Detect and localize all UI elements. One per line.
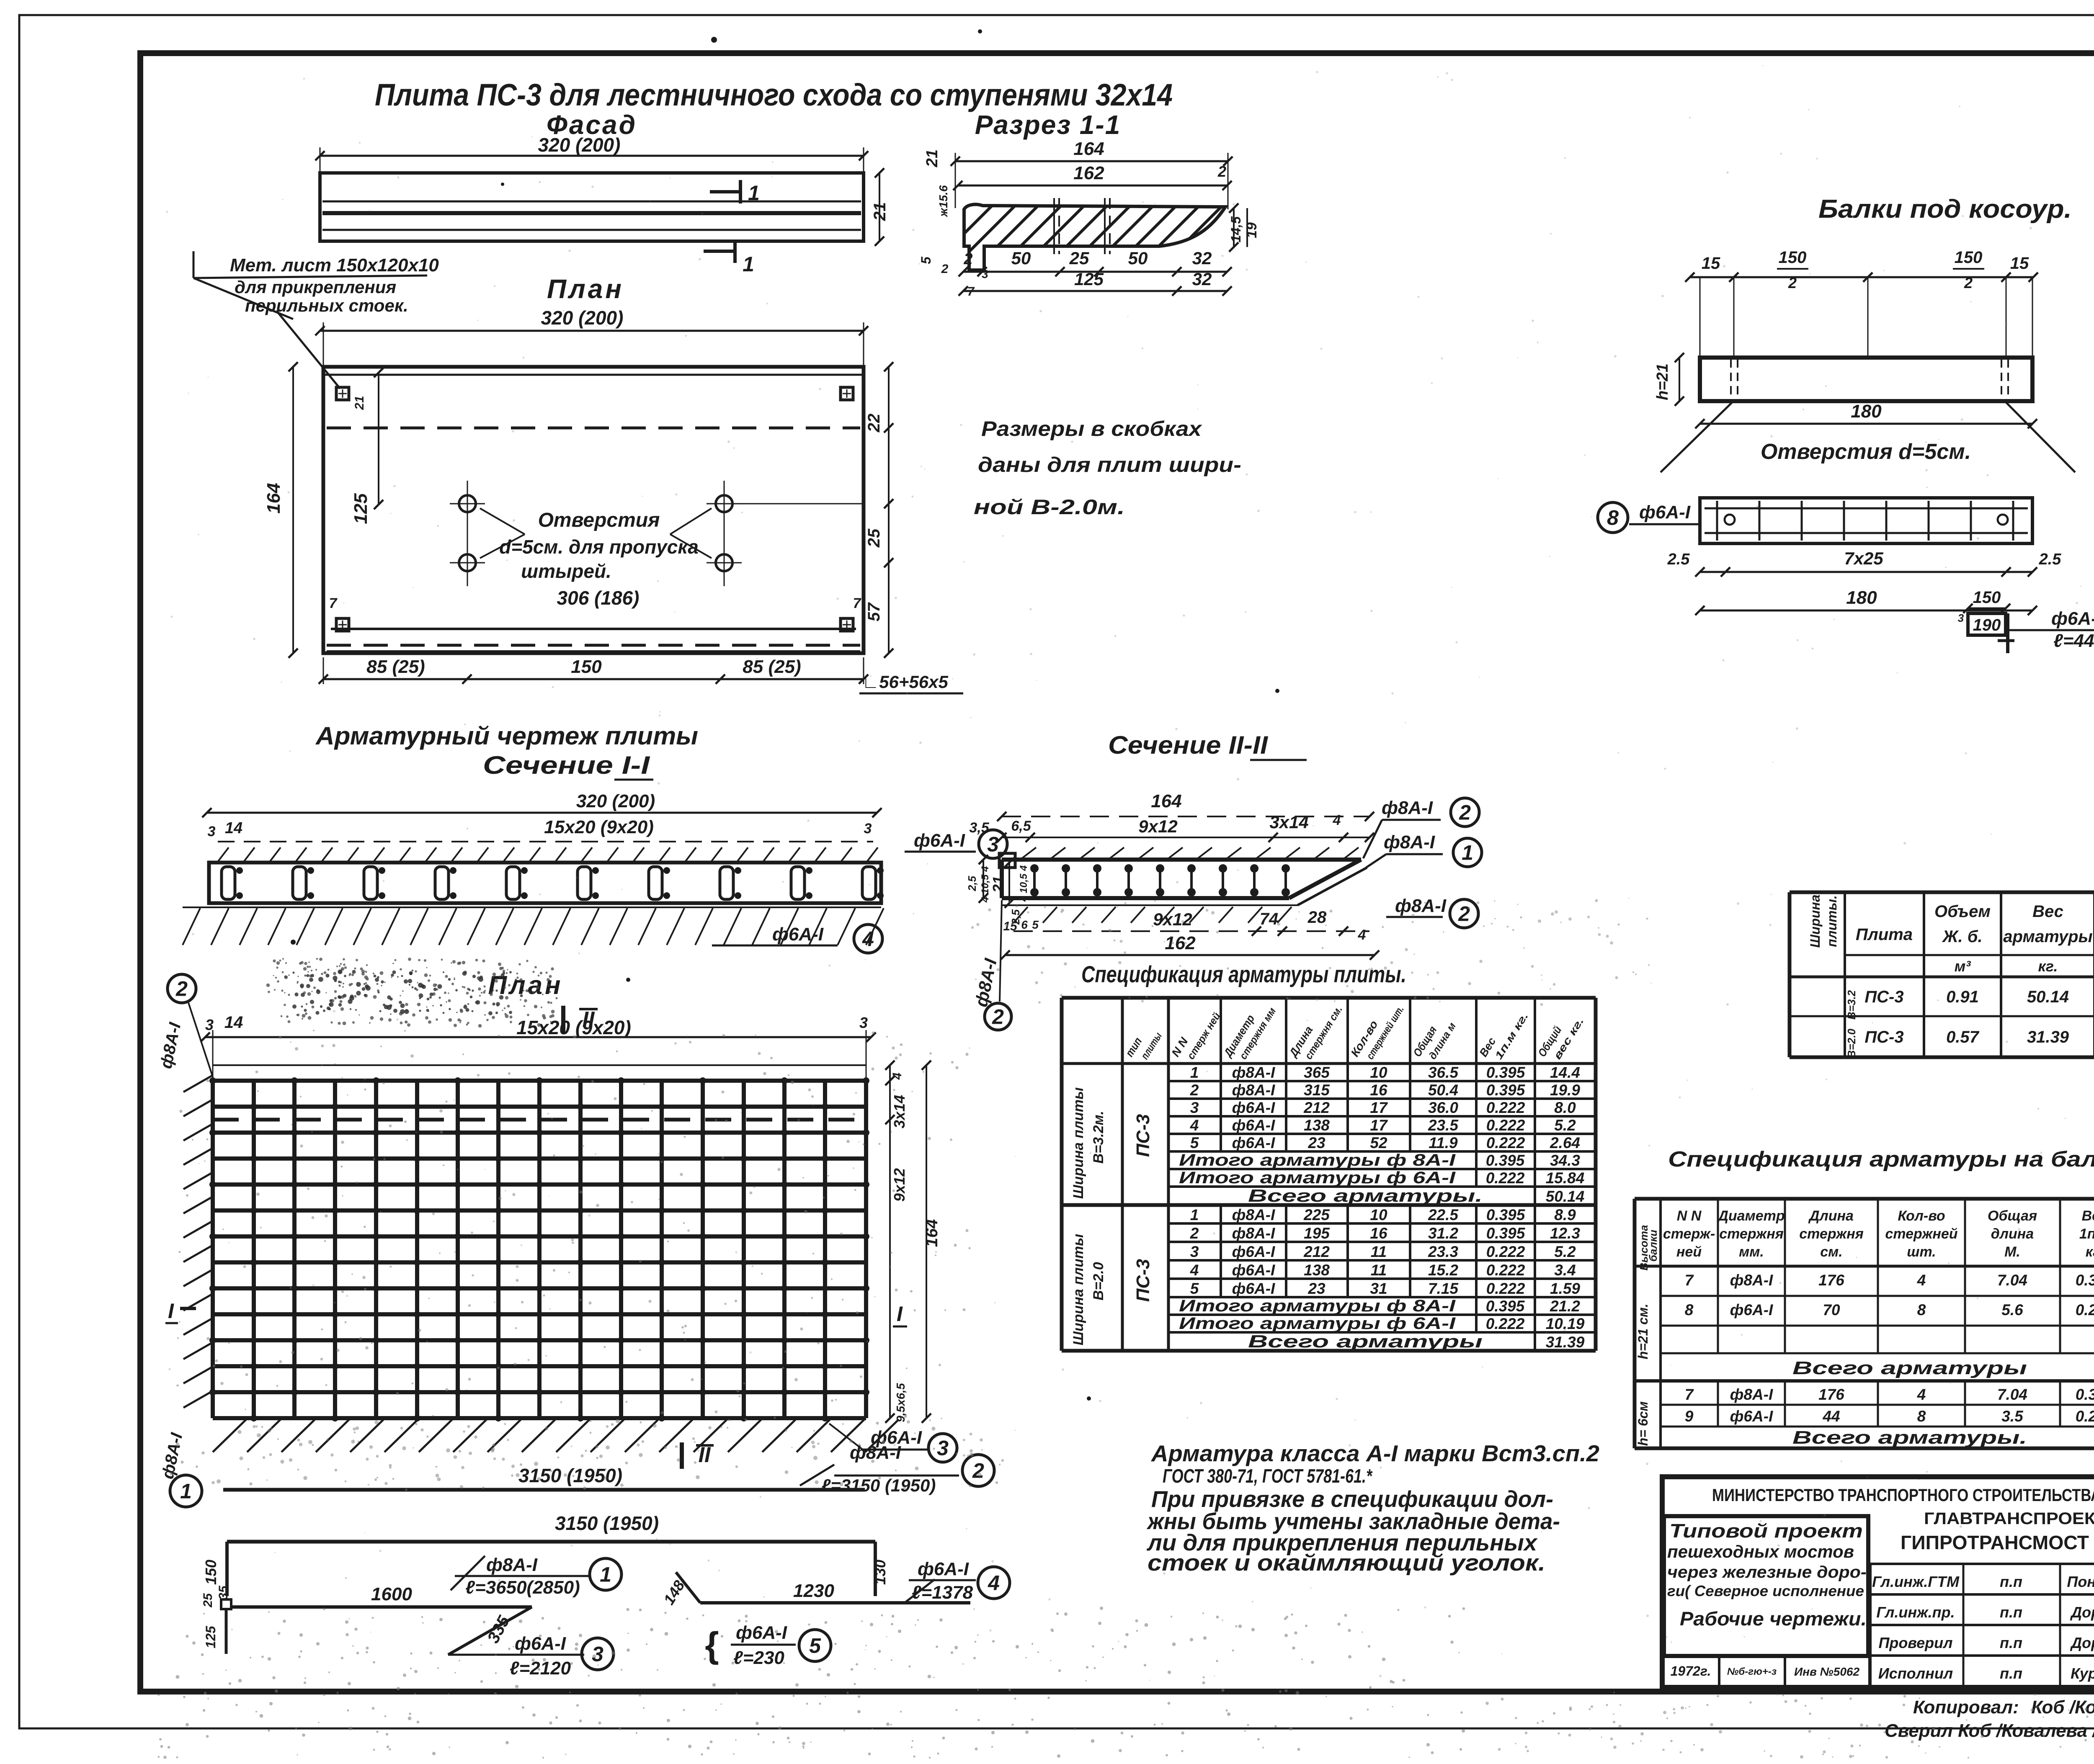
svg-text:10: 10 — [1370, 1206, 1387, 1223]
svg-text:225: 225 — [1303, 1206, 1330, 1223]
svg-text:п.п: п.п — [2000, 1604, 2022, 1621]
svg-text:ℓ=440: ℓ=440 — [2053, 631, 2094, 651]
holes leader lines — [480, 508, 525, 534]
svg-text:0.222: 0.222 — [1486, 1169, 1525, 1187]
grid bottom hatch — [213, 1419, 246, 1452]
svg-text:h= 6см: h= 6см — [1635, 1401, 1650, 1446]
svg-text:4: 4 — [890, 1072, 904, 1080]
svg-text:15х20 (9х20): 15х20 (9х20) — [544, 817, 654, 837]
svg-text:h=21 см.: h=21 см. — [1635, 1303, 1650, 1359]
svg-text:35: 35 — [217, 1585, 230, 1600]
razrez right labels — [1233, 208, 1235, 247]
bar mark 2 top-left — [168, 974, 196, 1003]
section I-I upper hatch — [218, 847, 229, 862]
svg-text:балки: балки — [1647, 1230, 1659, 1262]
svg-text:для прикрепления: для прикрепления — [235, 277, 396, 297]
svg-text:19.9: 19.9 — [1550, 1082, 1580, 1099]
svg-text:176: 176 — [1818, 1386, 1844, 1403]
svg-text:ф6А-I: ф6А-I — [1730, 1301, 1773, 1318]
beam reinforcement cage — [1700, 498, 2032, 543]
svg-text:130: 130 — [872, 1560, 889, 1585]
svg-text:кг.: кг. — [2086, 1244, 2094, 1260]
svg-text:Дорофеев: Дорофеев — [2070, 1604, 2094, 1621]
svg-text:3.4: 3.4 — [1554, 1262, 1576, 1279]
svg-text:ф8А-I: ф8А-I — [1232, 1064, 1275, 1081]
svg-text:7: 7 — [329, 595, 338, 611]
svg-text:2: 2 — [1217, 163, 1226, 180]
anchor plate top-left — [336, 387, 349, 400]
svg-text:2: 2 — [992, 1005, 1004, 1029]
svg-text:31: 31 — [1370, 1280, 1387, 1297]
svg-text:Мет. лист 150х120х10: Мет. лист 150х120х10 — [230, 255, 439, 276]
slab spec table frame — [1062, 996, 1596, 1000]
svg-text:п.п: п.п — [2000, 1665, 2022, 1682]
beam cage bottom dims — [1700, 571, 2032, 573]
svg-text:7: 7 — [853, 595, 862, 611]
svg-text:320 (200): 320 (200) — [541, 307, 624, 329]
svg-text:162: 162 — [1073, 163, 1104, 183]
svg-text:2.5: 2.5 — [2039, 551, 2062, 568]
plan left dim 164 — [292, 367, 294, 653]
svg-text:ф8А-I: ф8А-I — [1730, 1272, 1773, 1289]
svg-text:4: 4 — [1190, 1262, 1199, 1279]
svg-text:5.2: 5.2 — [1554, 1243, 1576, 1260]
svg-text:50.14: 50.14 — [2027, 988, 2069, 1006]
svg-text:31.39: 31.39 — [1546, 1334, 1585, 1351]
svg-text:Ж. б.: Ж. б. — [1942, 927, 1982, 946]
plan mark II top — [561, 1006, 565, 1033]
section I-I lower hatch — [183, 906, 881, 908]
svg-text:Спецификация арматуры плит: Спецификация арматуры плиты. — [1081, 961, 1406, 987]
svg-text:I: I — [168, 1299, 174, 1323]
svg-text:16: 16 — [1370, 1082, 1387, 1099]
svg-text:365: 365 — [1304, 1064, 1330, 1081]
beam spec table frame — [1635, 1197, 2094, 1201]
svg-text:шт.: шт. — [1907, 1244, 1936, 1260]
svg-text:стержней: стержней — [1885, 1226, 1957, 1242]
plan outline — [323, 367, 864, 653]
svg-text:длина: длина — [1991, 1226, 2034, 1242]
plan dashed axis — [327, 427, 860, 430]
svg-text:9х12: 9х12 — [891, 1168, 908, 1202]
svg-text:Размеры в скобках: Размеры в скобках — [981, 417, 1202, 440]
svg-text:31.39: 31.39 — [2027, 1028, 2069, 1046]
svg-text:138: 138 — [1304, 1262, 1330, 1279]
svg-text:2: 2 — [1459, 801, 1471, 824]
svg-text:3.5: 3.5 — [2001, 1408, 2024, 1425]
svg-text:3: 3 — [1190, 1243, 1199, 1260]
beam elevation body — [1700, 358, 2032, 401]
svg-text:3: 3 — [1190, 1099, 1199, 1116]
svg-text:Спецификация арматуры на ба: Спецификация арматуры на балку под косоу… — [1668, 1147, 2094, 1172]
svg-text:1.59: 1.59 — [1550, 1280, 1580, 1297]
svg-text:1: 1 — [1190, 1064, 1199, 1081]
svg-text:212: 212 — [1303, 1243, 1330, 1260]
svg-text:3: 3 — [937, 1437, 949, 1460]
svg-text:ф8А-I: ф8А-I — [1382, 798, 1433, 818]
svg-text:21: 21 — [923, 149, 941, 167]
section II-II slab band — [1002, 858, 1361, 862]
metal sheet leader — [276, 311, 340, 389]
svg-text:Арматура класса А-I марки Вс: Арматура класса А-I марки Вст3.сп.2 — [1150, 1440, 1599, 1466]
svg-text:3: 3 — [208, 824, 216, 840]
svg-text:Плита: Плита — [1856, 925, 1913, 944]
svg-text:2: 2 — [1788, 274, 1797, 291]
bar detail 4 — [676, 1572, 700, 1603]
svg-text:4: 4 — [862, 927, 874, 951]
svg-text:150: 150 — [1955, 248, 1983, 267]
svg-text:0.222: 0.222 — [1486, 1117, 1525, 1134]
svg-text:Инв №5062: Инв №5062 — [1794, 1665, 1860, 1678]
svg-text:Вес: Вес — [2082, 1208, 2094, 1224]
svg-text:Отверстия d=5см.: Отверстия d=5см. — [1761, 440, 1971, 464]
svg-text:см.: см. — [1820, 1244, 1843, 1260]
svg-text:Объем: Объем — [1934, 902, 1991, 921]
svg-text:2: 2 — [941, 262, 949, 276]
holes d=5cm — [459, 495, 476, 512]
svg-text:306 (186): 306 (186) — [557, 587, 640, 609]
bar detail 3 — [221, 1599, 231, 1609]
section I-I band — [209, 863, 881, 903]
svg-text:мм.: мм. — [1739, 1244, 1764, 1260]
svg-text:ной В-2.0м.: ной В-2.0м. — [974, 495, 1125, 519]
svg-text:0.222: 0.222 — [1486, 1099, 1525, 1116]
svg-text:4: 4 — [1917, 1386, 1926, 1403]
svg-text:4: 4 — [1917, 1272, 1926, 1289]
svg-text:ф6А-I: ф6А-I — [772, 924, 824, 945]
svg-text:0.222: 0.222 — [2076, 1301, 2094, 1318]
svg-text:Гл.инж.пр.: Гл.инж.пр. — [1876, 1604, 1955, 1621]
svg-text:h=21: h=21 — [1654, 363, 1671, 400]
svg-text:315: 315 — [1304, 1082, 1330, 1099]
svg-text:В=3.2: В=3.2 — [1845, 990, 1858, 1020]
svg-text:50.4: 50.4 — [1428, 1082, 1458, 1099]
svg-text:ф8А-I: ф8А-I — [850, 1442, 901, 1463]
svg-text:ф8А-I: ф8А-I — [1232, 1206, 1275, 1223]
svg-text:23: 23 — [1307, 1134, 1326, 1151]
svg-text:ПС-3: ПС-3 — [1133, 1259, 1153, 1302]
bar 2 label — [800, 1465, 834, 1486]
svg-text:стержня: стержня — [1719, 1226, 1784, 1242]
svg-text:125: 125 — [351, 493, 371, 524]
svg-text:5: 5 — [1032, 918, 1039, 931]
svg-text:22.5: 22.5 — [1428, 1206, 1459, 1223]
svg-text:8: 8 — [1685, 1301, 1694, 1318]
svg-text:9х12: 9х12 — [1138, 816, 1177, 836]
svg-text:9: 9 — [1685, 1408, 1694, 1425]
svg-text:14.4: 14.4 — [1550, 1064, 1580, 1081]
svg-text:164: 164 — [1151, 791, 1181, 811]
svg-text:5: 5 — [918, 256, 934, 264]
svg-text:Всего арматуры: Всего арматуры — [1248, 1331, 1483, 1351]
svg-text:п.п: п.п — [2000, 1634, 2022, 1651]
svg-text:Отверстия: Отверстия — [538, 509, 660, 531]
svg-text:Плита ПС-3 для лестничного сх: Плита ПС-3 для лестничного схода со ступ… — [375, 77, 1173, 112]
svg-text:125: 125 — [1074, 269, 1104, 289]
svg-text:320 (200): 320 (200) — [538, 134, 621, 156]
section II-II dims row2 — [1002, 837, 1369, 838]
svg-text:195: 195 — [1304, 1225, 1330, 1242]
svg-text:Кол-во: Кол-во — [1898, 1208, 1945, 1224]
svg-text:4: 4 — [1333, 812, 1341, 828]
svg-text:164: 164 — [1073, 139, 1104, 159]
svg-text:11.9: 11.9 — [1429, 1134, 1458, 1151]
svg-text:Итого арматуры ф 6А-I: Итого арматуры ф 6А-I — [1179, 1169, 1456, 1187]
svg-text:5: 5 — [809, 1634, 821, 1658]
svg-text:2: 2 — [1964, 274, 1973, 291]
svg-text:Вес: Вес — [2032, 902, 2063, 921]
svg-text:21.2: 21.2 — [1550, 1298, 1580, 1315]
svg-text:23: 23 — [1307, 1280, 1326, 1297]
plan left dim 125 — [378, 373, 379, 505]
bar mark 4 label — [712, 945, 838, 947]
svg-text:21: 21 — [990, 876, 1007, 893]
svg-text:плиты.: плиты. — [1824, 895, 1839, 947]
svg-text:3,5: 3,5 — [969, 820, 989, 836]
svg-text:3150 (1950): 3150 (1950) — [555, 1512, 659, 1534]
reinforcement plan top dims — [205, 1036, 871, 1038]
svg-text:ф6А-I: ф6А-I — [1730, 1408, 1773, 1425]
svg-text:7.04: 7.04 — [1997, 1386, 2027, 1403]
svg-text:2.5: 2.5 — [1667, 551, 1690, 568]
svg-text:7: 7 — [1685, 1272, 1694, 1289]
svg-text:7х25: 7х25 — [1844, 549, 1883, 568]
svg-text:Ширина плиты: Ширина плиты — [1070, 1234, 1086, 1345]
svg-text:0.57: 0.57 — [1946, 1028, 1980, 1046]
title block frame — [1662, 1477, 2094, 1687]
title block year row — [1662, 1654, 1868, 1658]
svg-text:180: 180 — [1846, 587, 1877, 608]
svg-text:7.04: 7.04 — [1997, 1272, 2027, 1289]
svg-text:4: 4 — [1358, 927, 1366, 943]
svg-text:В=2.0: В=2.0 — [1845, 1028, 1858, 1058]
facade right dim 21 — [879, 173, 880, 241]
svg-text:ф8А-I: ф8А-I — [1384, 832, 1435, 852]
svg-text:ПС-3: ПС-3 — [1864, 988, 1903, 1006]
svg-text:0.222: 0.222 — [1486, 1280, 1525, 1297]
svg-text:164: 164 — [263, 483, 284, 513]
svg-text:14,5: 14,5 — [1228, 216, 1243, 242]
paper speckle noise — [360, 968, 363, 971]
razrez bottom dims row2 — [963, 290, 1227, 292]
section II-II bottom dims — [1013, 930, 1369, 932]
svg-text:2: 2 — [1190, 1225, 1199, 1242]
grid right dims — [889, 1065, 891, 1418]
anchor plate bottom-right — [841, 618, 853, 631]
svg-text:п.п: п.п — [2000, 1573, 2022, 1590]
svg-text:стоек и окаймляющий уголок.: стоек и окаймляющий уголок. — [1148, 1550, 1545, 1576]
svg-text:ф6А-I: ф6А-I — [1232, 1099, 1275, 1116]
svg-text:36.5: 36.5 — [1428, 1064, 1459, 1081]
svg-text:ℓ=230: ℓ=230 — [733, 1648, 784, 1668]
svg-text:План: План — [547, 274, 624, 304]
svg-text:7: 7 — [1685, 1386, 1694, 1403]
svg-text:6: 6 — [1021, 918, 1028, 931]
section II-II upper hatch — [1022, 847, 1036, 858]
svg-text:ф6А-I: ф6А-I — [918, 1559, 969, 1579]
svg-text:ф6А-I: ф6А-I — [914, 830, 965, 851]
svg-text:Длина: Длина — [1808, 1208, 1854, 1224]
svg-text:1230: 1230 — [793, 1581, 834, 1601]
svg-text:Рабочие чертежи.: Рабочие чертежи. — [1680, 1608, 1867, 1630]
svg-text:Арматурный чертеж плиты: Арматурный чертеж плиты — [315, 722, 698, 750]
svg-text:м³: м³ — [1955, 958, 1971, 975]
svg-text:0.222: 0.222 — [1486, 1243, 1525, 1260]
svg-text:50.14: 50.14 — [1546, 1188, 1585, 1205]
grid intersection dots — [209, 1077, 216, 1084]
svg-text:1: 1 — [600, 1563, 611, 1586]
svg-text:3х14: 3х14 — [891, 1095, 908, 1128]
svg-text:44: 44 — [1822, 1408, 1840, 1425]
svg-text:ги( Северное исполнение: ги( Северное исполнение — [1667, 1582, 1864, 1599]
plan right dims — [888, 367, 890, 653]
svg-text:4 10,5 4: 4 10,5 4 — [980, 866, 991, 903]
reinforcement grid — [211, 1081, 215, 1418]
svg-text:кг.: кг. — [2038, 958, 2058, 975]
svg-text:ф6А-I: ф6А-I — [2051, 608, 2094, 629]
svg-text:1: 1 — [1190, 1206, 1199, 1223]
svg-text:ГИПРОТРАНСМОСТ: ГИПРОТРАНСМОСТ — [1901, 1532, 2089, 1553]
svg-text:2: 2 — [972, 1459, 984, 1483]
svg-text:3: 3 — [592, 1643, 603, 1666]
svg-text:2: 2 — [1190, 1082, 1199, 1099]
svg-text:150: 150 — [571, 657, 602, 677]
svg-text:32: 32 — [1192, 269, 1212, 289]
svg-text:Всего арматуры.: Всего арматуры. — [1248, 1186, 1483, 1205]
svg-text:0.395: 0.395 — [1486, 1206, 1526, 1223]
svg-text:ℓ=3650(2850): ℓ=3650(2850) — [465, 1577, 580, 1598]
svg-text:Всего арматуры.: Всего арматуры. — [1792, 1427, 2027, 1448]
svg-text:85 (25): 85 (25) — [366, 657, 425, 677]
svg-text:23.5: 23.5 — [1428, 1117, 1459, 1134]
block parameters table — [1790, 891, 2094, 894]
svg-text:Итого арматуры ф 8А-I: Итого арматуры ф 8А-I — [1179, 1297, 1456, 1315]
svg-text:25: 25 — [1069, 248, 1089, 268]
svg-text:Диаметр: Диаметр — [1717, 1208, 1785, 1224]
svg-text:перильных стоек.: перильных стоек. — [245, 296, 408, 315]
svg-text:{: { — [705, 1625, 719, 1665]
svg-text:Куранчева: Куранчева — [2071, 1665, 2094, 1682]
title block project box — [1664, 1516, 1868, 1656]
svg-text:57: 57 — [865, 602, 883, 621]
svg-text:0.222: 0.222 — [2076, 1408, 2094, 1425]
plan mark II bottom — [680, 1442, 684, 1469]
svg-text:8.0: 8.0 — [1554, 1099, 1576, 1116]
svg-text:164: 164 — [923, 1219, 941, 1247]
svg-text:8: 8 — [1917, 1301, 1926, 1318]
svg-text:План: План — [488, 971, 563, 1000]
svg-text:25: 25 — [865, 528, 883, 548]
svg-text:В=3.2м.: В=3.2м. — [1091, 1111, 1106, 1164]
svg-text:ф8А-I: ф8А-I — [1730, 1386, 1773, 1403]
svg-text:70: 70 — [1823, 1301, 1840, 1318]
svg-text:ф6А-I: ф6А-I — [1232, 1243, 1275, 1260]
svg-text:320 (200): 320 (200) — [576, 791, 655, 811]
title block staff table — [1868, 1564, 1872, 1687]
svg-text:162: 162 — [1165, 933, 1196, 953]
svg-text:ж15.6: ж15.6 — [937, 185, 950, 218]
svg-text:МИНИСТЕРСТВО ТРАНСПОРТНОГО: МИНИСТЕРСТВО ТРАНСПОРТНОГО СТРОИТЕЛЬСТВА… — [1712, 1485, 2094, 1505]
svg-text:ней: ней — [1676, 1244, 1702, 1260]
svg-text:пешеходных мостов: пешеходных мостов — [1667, 1542, 1854, 1561]
svg-text:34.3: 34.3 — [1550, 1152, 1580, 1169]
svg-text:5: 5 — [1190, 1280, 1199, 1297]
svg-text:150: 150 — [1779, 248, 1807, 267]
dark specks — [711, 37, 717, 43]
svg-text:ф6А-I: ф6А-I — [1232, 1134, 1275, 1151]
svg-text:180: 180 — [1851, 401, 1882, 422]
svg-text:I: I — [897, 1302, 903, 1326]
svg-text:ГЛАВТРАНСПРОЕКТ: ГЛАВТРАНСПРОЕКТ — [1924, 1509, 2094, 1528]
svg-text:2: 2 — [175, 977, 188, 1001]
svg-text:Гл.инж.ГТМ: Гл.инж.ГТМ — [1872, 1573, 1960, 1590]
svg-text:Исполнил: Исполнил — [1878, 1665, 1953, 1682]
beam elevation dim 180 — [1700, 423, 2032, 425]
anchor plate top-right — [841, 387, 853, 400]
razrez step lines — [1053, 198, 1055, 254]
svg-text:2: 2 — [1458, 902, 1470, 926]
svg-text:Типовой проект: Типовой проект — [1669, 1520, 1863, 1542]
svg-text:8: 8 — [1607, 506, 1619, 530]
bar detail 9 — [1968, 613, 2006, 635]
svg-text:3: 3 — [1958, 612, 1964, 624]
svg-text:1п.м: 1п.м — [2079, 1226, 2094, 1242]
svg-text:150: 150 — [202, 1560, 219, 1585]
facade slab bar — [320, 173, 864, 241]
svg-text:0.395: 0.395 — [1486, 1225, 1526, 1242]
svg-text:арматуры: арматуры — [2003, 927, 2092, 946]
svg-text:36.0: 36.0 — [1428, 1099, 1458, 1116]
svg-text:15: 15 — [1702, 254, 1720, 273]
svg-text:ф8А-I: ф8А-I — [1232, 1082, 1275, 1099]
beam elevation h=21 — [1679, 358, 1680, 401]
svg-text:52: 52 — [1370, 1134, 1387, 1151]
svg-text:ф6А-I: ф6А-I — [1232, 1262, 1275, 1279]
svg-text:3х14: 3х14 — [1269, 812, 1308, 832]
svg-text:50: 50 — [1128, 248, 1148, 268]
svg-text:Дорофеев: Дорофеев — [2070, 1634, 2094, 1651]
svg-text:10: 10 — [1370, 1064, 1387, 1081]
svg-text:1972г.: 1972г. — [1671, 1664, 1711, 1679]
svg-text:15.84: 15.84 — [1546, 1169, 1585, 1187]
section I-I stirrups — [222, 867, 235, 899]
svg-text:14: 14 — [225, 819, 242, 837]
facade section mark 1 top — [710, 190, 740, 193]
plan bottom dims — [323, 678, 864, 680]
svg-text:2,5: 2,5 — [966, 876, 978, 891]
section mark I left — [180, 1307, 196, 1310]
svg-text:25: 25 — [201, 1593, 215, 1608]
svg-text:5: 5 — [1190, 1134, 1199, 1151]
svg-text:85 (25): 85 (25) — [743, 657, 801, 677]
svg-text:ф8А-I: ф8А-I — [1395, 896, 1447, 916]
svg-text:Ширина плиты: Ширина плиты — [1070, 1087, 1086, 1199]
svg-text:1600: 1600 — [371, 1584, 412, 1604]
reinforcement grid top line — [213, 1064, 866, 1066]
svg-text:через железные доро-: через железные доро- — [1667, 1563, 1867, 1581]
svg-text:№б-гю+-з: №б-гю+-з — [1727, 1666, 1777, 1677]
svg-text:ф6А-I: ф6А-I — [736, 1622, 787, 1643]
svg-text:28: 28 — [1307, 908, 1327, 927]
anchor plate bottom-left — [336, 618, 349, 631]
svg-text:0.395: 0.395 — [1486, 1298, 1525, 1315]
svg-text:Балки под косоур.: Балки под косоур. — [1818, 195, 2072, 224]
beam elevation top dims — [1690, 276, 2033, 278]
svg-text:22: 22 — [865, 414, 883, 433]
svg-text:Общая: Общая — [1988, 1208, 2037, 1224]
svg-text:1: 1 — [1462, 841, 1473, 865]
section II-II lower hatch — [1013, 907, 1028, 923]
